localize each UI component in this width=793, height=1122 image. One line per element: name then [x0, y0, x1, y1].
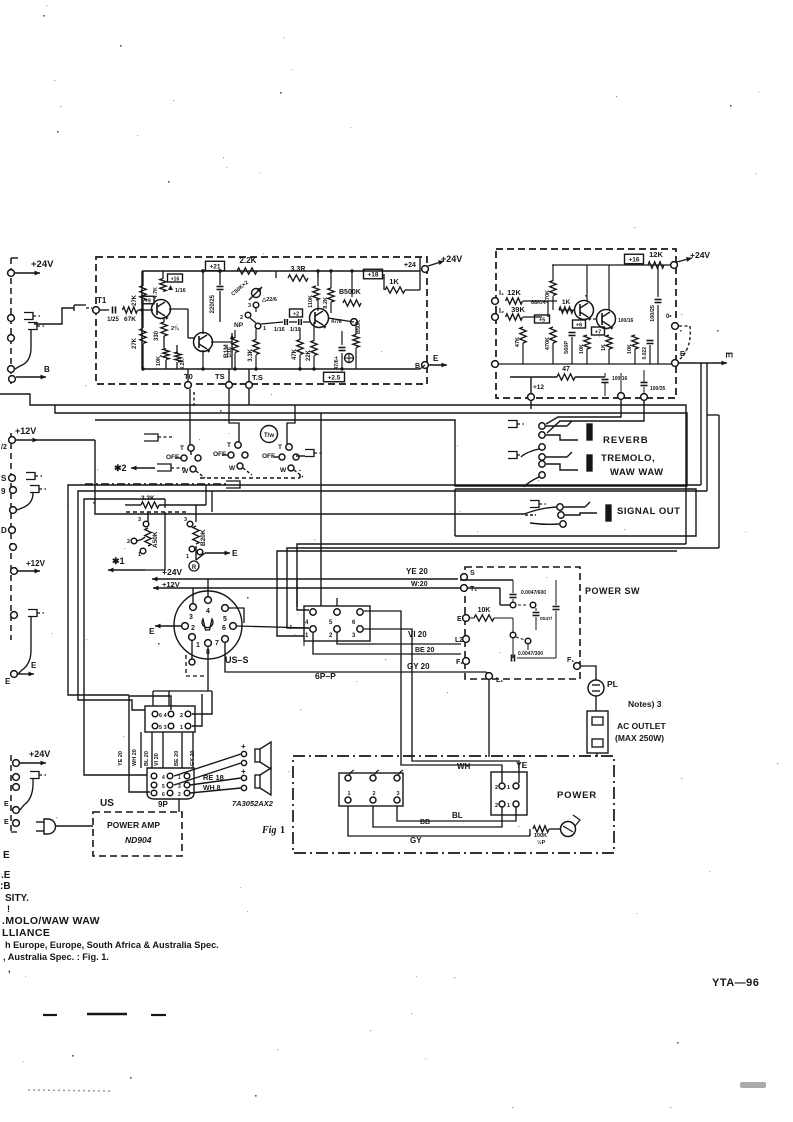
svg-text:,: ,: [8, 964, 11, 974]
svg-text:+24V: +24V: [441, 254, 462, 264]
svg-text:T: T: [180, 445, 184, 452]
svg-text:△22/6: △22/6: [261, 296, 277, 303]
svg-text:GY 20: GY 20: [190, 751, 196, 767]
svg-text:POWER AMP: POWER AMP: [107, 820, 160, 830]
svg-text:YE 20: YE 20: [118, 751, 124, 766]
svg-text:+6: +6: [576, 322, 582, 328]
svg-text:B: B: [415, 363, 420, 370]
svg-text:6: 6: [222, 625, 226, 632]
svg-text:E: E: [457, 616, 462, 623]
svg-text:E: E: [433, 354, 439, 363]
svg-text:0.0047/600: 0.0047/600: [521, 590, 546, 596]
svg-text:PL: PL: [607, 679, 618, 689]
svg-text:100/35: 100/35: [650, 386, 666, 392]
svg-text:E´: E´: [680, 351, 688, 358]
svg-text:BL 20: BL 20: [144, 751, 150, 766]
svg-text:220/25: 220/25: [210, 294, 216, 313]
svg-text:YE 20: YE 20: [406, 567, 428, 576]
svg-text:+7: +7: [595, 329, 601, 335]
svg-text:SITY.: SITY.: [5, 893, 29, 904]
svg-text:YTA—96: YTA—96: [712, 977, 759, 989]
svg-text:R: R: [192, 565, 197, 571]
svg-text:TREMOLO,: TREMOLO,: [601, 453, 655, 464]
svg-text:1/16: 1/16: [175, 288, 186, 294]
svg-text:E: E: [31, 661, 37, 670]
svg-text:47/6+: 47/6+: [334, 356, 340, 370]
svg-text:T0: T0: [184, 372, 193, 381]
svg-text:T1: T1: [97, 296, 107, 305]
svg-text:S: S: [1, 474, 7, 483]
svg-text:SIGNAL OUT: SIGNAL OUT: [617, 506, 680, 517]
svg-text:1: 1: [263, 326, 266, 332]
svg-text:1: 1: [507, 785, 510, 791]
svg-text:3.3K: 3.3K: [248, 348, 254, 361]
svg-text:VI 20: VI 20: [154, 753, 160, 766]
svg-text:0047/: 0047/: [540, 616, 553, 622]
svg-text:BL: BL: [452, 811, 463, 820]
svg-text:100/16: 100/16: [612, 376, 628, 382]
svg-text:+2: +2: [293, 311, 299, 317]
svg-text:W: W: [229, 465, 236, 472]
svg-text:2: 2: [191, 625, 195, 632]
svg-text:47K: 47K: [292, 348, 298, 360]
svg-text:9: 9: [1, 487, 6, 496]
svg-text:4: 4: [206, 608, 210, 615]
svg-text:1/16: 1/16: [227, 347, 233, 358]
svg-text:VI 20: VI 20: [408, 630, 427, 639]
svg-text:3: 3: [184, 517, 187, 523]
svg-text:1/16: 1/16: [274, 327, 285, 333]
svg-text:2: 2: [127, 539, 130, 545]
svg-text:+2.5: +2.5: [328, 374, 341, 381]
svg-text:(MAX 250W): (MAX 250W): [615, 733, 664, 743]
svg-text:1K: 1K: [562, 299, 571, 306]
svg-text:100/25: 100/25: [650, 305, 656, 322]
svg-text:+24: +24: [404, 262, 416, 269]
svg-text:h Europe, Europe, South Africa: h Europe, Europe, South Africa & Austral…: [5, 940, 219, 950]
svg-text:110K: 110K: [308, 295, 314, 308]
svg-text:T₁: T₁: [470, 586, 477, 593]
svg-text:1/25: 1/25: [107, 317, 119, 323]
svg-text:WAW WAW: WAW WAW: [610, 467, 664, 478]
svg-text:S: S: [470, 570, 475, 577]
svg-text:1/10: 1/10: [290, 327, 301, 333]
svg-text:A50K: A50K: [152, 531, 159, 548]
svg-text:BE 20: BE 20: [415, 647, 435, 654]
svg-text:E: E: [3, 850, 10, 861]
svg-text:T.S: T.S: [252, 373, 263, 382]
svg-text:6 4: 6 4: [159, 713, 168, 719]
svg-text:BB: BB: [420, 819, 430, 826]
svg-text:ND904: ND904: [125, 835, 152, 845]
svg-text:+9: +9: [145, 298, 151, 304]
svg-text:47K: 47K: [515, 337, 521, 347]
svg-text:L₁: L₁: [496, 677, 503, 684]
svg-text:D: D: [1, 526, 7, 535]
svg-text:GY: GY: [410, 836, 422, 845]
svg-text:3.3R: 3.3R: [291, 266, 306, 273]
svg-text:WH 20: WH 20: [132, 749, 138, 766]
svg-text:AC OUTLET: AC OUTLET: [617, 721, 666, 731]
svg-text:NP: NP: [234, 322, 244, 329]
svg-text:+21: +21: [209, 263, 220, 270]
svg-text:12K: 12K: [649, 250, 663, 259]
svg-text:5: 5: [162, 784, 165, 790]
svg-text:0.022: 0.022: [642, 347, 648, 360]
svg-text:12K: 12K: [507, 288, 521, 297]
svg-text:Notes) 3: Notes) 3: [628, 699, 662, 709]
svg-text:3.3K: 3.3K: [141, 495, 155, 502]
svg-text:1: 1: [180, 725, 183, 731]
svg-text:BE 20: BE 20: [174, 751, 180, 766]
svg-text:REVERB: REVERB: [603, 435, 649, 446]
svg-text:✱1: ✱1: [112, 556, 125, 566]
svg-text:470K: 470K: [545, 337, 551, 350]
svg-text:W: W: [182, 468, 189, 475]
svg-text:5 3: 5 3: [159, 725, 167, 731]
svg-text::B: :B: [0, 881, 11, 892]
svg-text:Fig: Fig: [261, 825, 276, 836]
svg-text:+: +: [241, 742, 246, 751]
svg-text:L2: L2: [455, 637, 463, 644]
svg-text:10K: 10K: [156, 356, 162, 366]
svg-text:2: 2: [372, 791, 375, 797]
svg-text:GY 20: GY 20: [407, 662, 430, 671]
svg-text:3: 3: [396, 791, 399, 797]
svg-text:2: 2: [240, 315, 243, 321]
svg-text:1: 1: [138, 552, 141, 558]
svg-text:39K: 39K: [511, 305, 525, 314]
svg-text:3: 3: [178, 784, 181, 790]
svg-text:W: W: [280, 467, 287, 474]
svg-text:10K: 10K: [627, 344, 633, 354]
svg-text:B: B: [44, 365, 50, 374]
svg-text:F₁: F₁: [456, 659, 463, 666]
svg-text:US: US: [100, 798, 114, 809]
svg-text:POWER SW: POWER SW: [585, 586, 640, 596]
svg-text:WH: WH: [457, 762, 471, 771]
svg-text:3: 3: [138, 517, 141, 523]
svg-text:US–S: US–S: [225, 655, 249, 665]
svg-text:E: E: [149, 626, 155, 636]
svg-text:+16: +16: [628, 256, 639, 263]
svg-text:I₁: I₁: [499, 290, 504, 297]
svg-text:2: 2: [495, 803, 498, 809]
svg-text:1K: 1K: [389, 277, 399, 286]
svg-text:2¾: 2¾: [171, 325, 179, 332]
svg-text:✱2: ✱2: [114, 463, 127, 473]
svg-text:330: 330: [154, 330, 160, 341]
svg-text:!: !: [7, 904, 10, 914]
svg-text:5: 5: [223, 616, 227, 623]
svg-text:E: E: [5, 677, 11, 686]
svg-text:/2: /2: [1, 444, 7, 451]
svg-text:560P: 560P: [564, 341, 570, 354]
svg-text:.MOLO/WAW WAW: .MOLO/WAW WAW: [2, 915, 100, 927]
svg-text:1: 1: [196, 642, 200, 649]
svg-text:+24V: +24V: [31, 259, 54, 270]
svg-text:2.2K: 2.2K: [240, 256, 257, 265]
svg-text:6: 6: [162, 792, 165, 798]
svg-text:2: 2: [495, 785, 498, 791]
svg-text:3: 3: [189, 614, 193, 621]
svg-text:1: 1: [507, 803, 510, 809]
svg-text:TS: TS: [215, 372, 225, 381]
svg-text:0.0047/300: 0.0047/300: [518, 651, 543, 657]
svg-text:POWER: POWER: [557, 790, 597, 801]
svg-text:2: 2: [178, 792, 181, 798]
svg-text:47: 47: [562, 366, 570, 373]
svg-text:1K: 1K: [601, 344, 607, 351]
svg-text:T: T: [278, 444, 282, 451]
svg-text:1: 1: [178, 775, 181, 781]
svg-text:E: E: [4, 819, 9, 826]
svg-text:2: 2: [180, 713, 183, 719]
svg-text:.E: .E: [1, 870, 11, 881]
svg-text:W:20: W:20: [411, 581, 428, 588]
svg-text:1: 1: [186, 554, 189, 560]
svg-text:+12V: +12V: [26, 559, 46, 568]
svg-text:+18: +18: [367, 271, 378, 278]
svg-text:8.2K: 8.2K: [323, 297, 329, 309]
svg-text:, Australia Spec. : Fig. 1.: , Australia Spec. : Fig. 1.: [3, 952, 109, 962]
svg-text:67K: 67K: [124, 316, 136, 323]
svg-text:B20K: B20K: [200, 529, 207, 546]
svg-text:E: E: [232, 548, 238, 558]
svg-text:+12V: +12V: [15, 426, 36, 436]
svg-text:½P: ½P: [537, 839, 546, 846]
svg-text:10K: 10K: [478, 607, 491, 614]
svg-text:+5: +5: [539, 317, 545, 323]
svg-text:LLIANCE: LLIANCE: [2, 927, 50, 939]
svg-text:1: 1: [280, 825, 285, 836]
svg-text:B500K: B500K: [339, 289, 361, 296]
svg-text:3: 3: [248, 303, 251, 309]
svg-text:F₁: F₁: [567, 657, 574, 664]
svg-text:E: E: [4, 801, 9, 808]
svg-text:E: E: [724, 352, 734, 358]
svg-text:7: 7: [215, 640, 219, 647]
svg-text:0•: 0•: [666, 314, 671, 320]
svg-text:100/16: 100/16: [618, 318, 634, 324]
svg-text:10K: 10K: [579, 344, 585, 354]
svg-text:4: 4: [162, 775, 165, 781]
svg-text:7A3052AX2: 7A3052AX2: [232, 799, 274, 808]
svg-text:T: T: [227, 442, 231, 449]
svg-text:8.2K: 8.2K: [180, 359, 186, 370]
svg-text:I₂: I₂: [499, 308, 504, 315]
svg-text:9P: 9P: [158, 800, 168, 809]
svg-text:1: 1: [347, 791, 350, 797]
svg-text:+: +: [241, 767, 246, 776]
svg-text:B50K: B50K: [356, 320, 362, 334]
svg-text:+24V: +24V: [29, 749, 50, 759]
svg-text:27K: 27K: [132, 337, 138, 349]
svg-text:+16: +16: [171, 276, 180, 282]
svg-text:+24V: +24V: [162, 567, 182, 577]
svg-text:100K: 100K: [534, 833, 547, 839]
svg-text:+24V: +24V: [690, 250, 710, 260]
svg-text:+12: +12: [533, 384, 544, 391]
svg-text:T/w: T/w: [264, 433, 274, 439]
svg-text:27K: 27K: [132, 294, 138, 306]
svg-text:22K: 22K: [306, 349, 312, 361]
